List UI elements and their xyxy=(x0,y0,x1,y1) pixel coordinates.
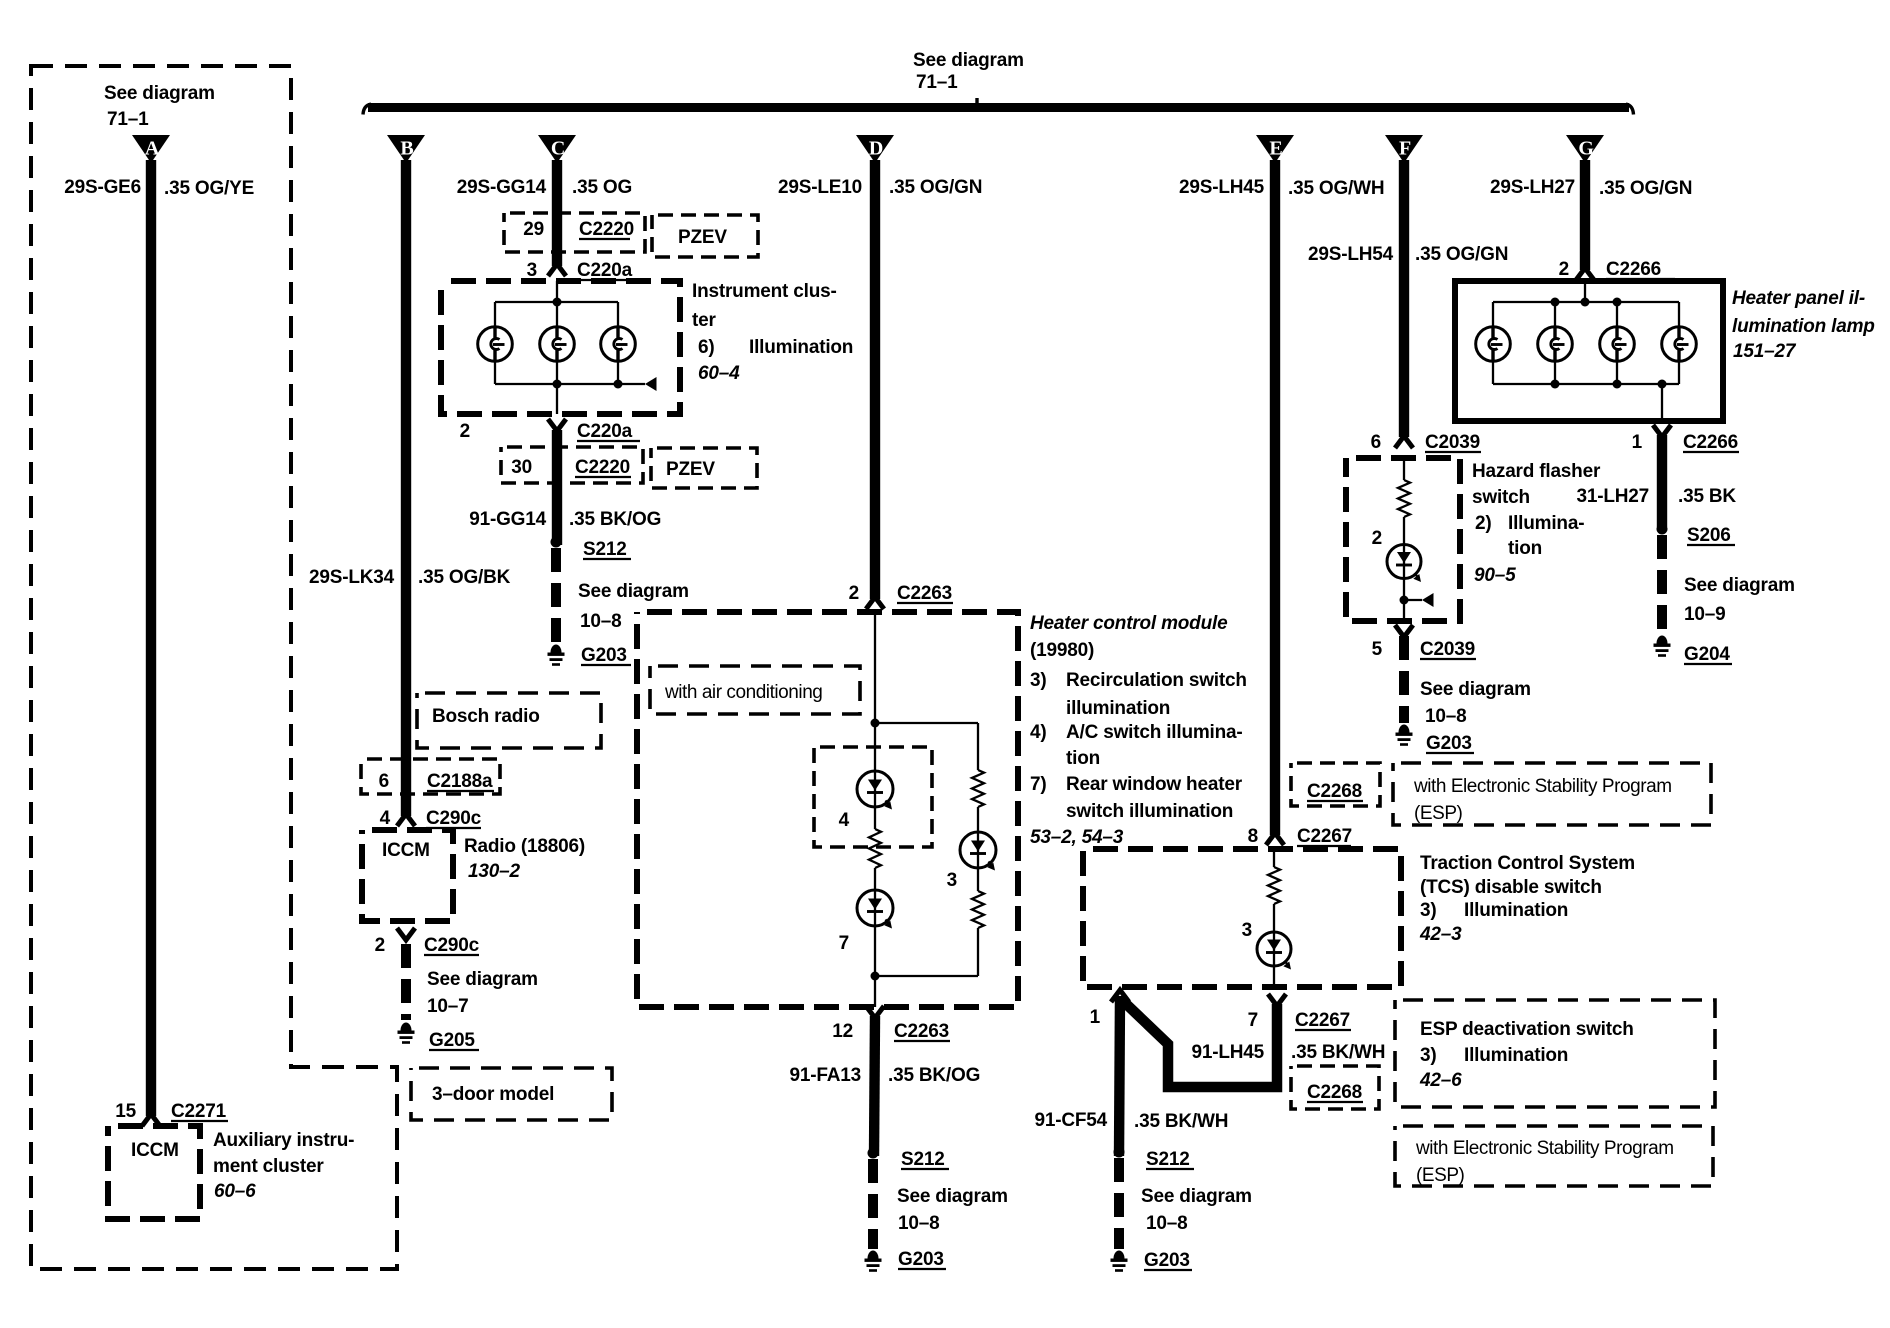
svg-text:See diagram: See diagram xyxy=(913,50,1024,71)
wire 91-GG14 vertical xyxy=(552,430,562,545)
option box: See diagram 71-1 (left region outline) xyxy=(31,66,397,1269)
svg-text:G203: G203 xyxy=(1144,1250,1190,1271)
connector arrow into hazard switch xyxy=(1395,436,1413,448)
svg-text:Hazard flasher: Hazard flasher xyxy=(1472,461,1601,482)
svg-text:130–2: 130–2 xyxy=(468,861,520,882)
svg-text:42–6: 42–6 xyxy=(1419,1070,1462,1091)
svg-text:29S-GE6: 29S-GE6 xyxy=(64,177,141,198)
svg-text:91-FA13: 91-FA13 xyxy=(790,1065,861,1086)
splice S212 (C) xyxy=(551,537,562,548)
svg-text:S206: S206 xyxy=(1687,525,1731,546)
svg-text:10–8: 10–8 xyxy=(580,611,621,632)
junction dot top center xyxy=(553,298,562,307)
svg-text:.35 OG/GN: .35 OG/GN xyxy=(889,177,982,198)
wire 29S-GG14 (C) vertical upper xyxy=(552,160,562,266)
junction dot bottom xyxy=(871,972,880,981)
wire lamp3-resistor2 xyxy=(977,868,979,891)
bus reference tick xyxy=(975,98,978,105)
connector arrow out of TCS pin 7 xyxy=(1268,994,1286,1006)
svg-text:C2188a: C2188a xyxy=(427,771,493,792)
svg-text:10–7: 10–7 xyxy=(427,996,468,1017)
wire to G203 dashed (E) xyxy=(1114,1158,1124,1249)
radio ICCM box xyxy=(362,830,453,921)
wire to G204 dashed (G) xyxy=(1657,535,1667,634)
svg-text:tion: tion xyxy=(1066,748,1100,769)
splice S212 (E) xyxy=(1114,1147,1125,1158)
junction dot hazard xyxy=(1400,596,1409,605)
svg-text:.35 BK: .35 BK xyxy=(1678,486,1736,507)
svg-text:.35 BK/WH: .35 BK/WH xyxy=(1134,1111,1228,1132)
wire 31-LH27 vertical xyxy=(1657,435,1667,527)
svg-text:29S-LK34: 29S-LK34 xyxy=(309,567,395,588)
option box 3-door model xyxy=(411,1068,612,1120)
cluster lamp 2 xyxy=(540,327,575,362)
svg-text:C2266: C2266 xyxy=(1683,432,1738,453)
svg-text:lumination lamp: lumination lamp xyxy=(1732,316,1875,337)
svg-text:2: 2 xyxy=(849,583,859,604)
connector box C2268 (lower) xyxy=(1291,1066,1379,1109)
wire 91-LH45 loop pin7 to pin1 xyxy=(1122,1000,1277,1087)
svg-text:ESP deactivation switch: ESP deactivation switch xyxy=(1420,1019,1634,1040)
svg-text:Rear window heater: Rear window heater xyxy=(1066,774,1243,795)
svg-text:.35 OG/BK: .35 OG/BK xyxy=(418,567,511,588)
in-line connector box pin 29 C2220 xyxy=(504,213,645,252)
resistor hazard xyxy=(1398,480,1410,517)
heater panel ground-side stem xyxy=(1661,384,1663,421)
heater panel lamp 1 xyxy=(1476,327,1511,362)
svg-text:Instrument clus-: Instrument clus- xyxy=(692,281,837,302)
svg-text:3–door model: 3–door model xyxy=(432,1084,554,1105)
svg-text:G205: G205 xyxy=(429,1030,475,1051)
svg-text:.35 OG: .35 OG xyxy=(572,177,632,198)
svg-text:4: 4 xyxy=(380,808,391,829)
wire 29S-LH45/LH54 (F) vertical xyxy=(1399,160,1409,437)
svg-text:G: G xyxy=(1578,138,1594,160)
svg-text:3): 3) xyxy=(1420,1045,1437,1066)
power feed bus wire from diagram 71-1 xyxy=(368,103,1629,112)
svg-text:Illumination: Illumination xyxy=(749,337,853,358)
svg-text:C220a: C220a xyxy=(577,421,633,442)
heater panel lamp 4 xyxy=(1662,327,1697,362)
svg-text:Heater panel il-: Heater panel il- xyxy=(1732,288,1865,309)
svg-text:Illumina-: Illumina- xyxy=(1508,513,1584,534)
heater panel feed stem xyxy=(1584,281,1586,302)
svg-text:(ESP): (ESP) xyxy=(1414,803,1463,824)
lamp 3 (recirculation switch illumination) xyxy=(960,832,996,871)
svg-text:C2268: C2268 xyxy=(1307,1082,1362,1103)
cluster internal feed wire xyxy=(556,281,558,302)
svg-text:C2039: C2039 xyxy=(1420,639,1475,660)
TCS internal wire upper xyxy=(1273,849,1275,867)
connector arrow out of heater panel lamp xyxy=(1653,425,1671,437)
cluster internal top bus xyxy=(495,301,618,303)
off-page connector triangle E xyxy=(1256,135,1294,163)
off-page connector triangle G xyxy=(1566,135,1604,163)
wire 29S-LK34 (B) vertical xyxy=(401,160,411,816)
lamp 7 (rear window heater switch illumination) xyxy=(857,890,893,929)
splice S206 xyxy=(1657,524,1668,535)
cluster lamp 1 xyxy=(478,327,513,362)
svg-text:See diagram: See diagram xyxy=(1420,679,1531,700)
TCS lamp 3 (illumination) xyxy=(1257,932,1291,970)
cluster lamp 2 stem xyxy=(556,302,558,328)
svg-text:4: 4 xyxy=(839,810,850,831)
svg-text:29: 29 xyxy=(523,219,544,240)
svg-text:C2220: C2220 xyxy=(579,219,634,240)
svg-text:15: 15 xyxy=(115,1101,136,1122)
svg-text:C2263: C2263 xyxy=(897,583,952,604)
svg-text:.35 OG/GN: .35 OG/GN xyxy=(1599,178,1692,199)
heater panel lamp 2 stems xyxy=(1554,302,1556,327)
connector arrow into aux cluster xyxy=(142,1114,160,1126)
svg-text:2): 2) xyxy=(1475,513,1492,534)
svg-text:.35 OG/YE: .35 OG/YE xyxy=(164,178,254,199)
svg-text:10–9: 10–9 xyxy=(1684,604,1725,625)
svg-text:.35 OG/WH: .35 OG/WH xyxy=(1288,178,1384,199)
wire 29S-LE10 (D) vertical xyxy=(870,160,880,599)
TCS internal wire lower xyxy=(1273,966,1275,987)
wire to G203 dashed (F) xyxy=(1399,636,1409,723)
hazard flasher switch box xyxy=(1346,458,1460,621)
wire to G203 dashed (C) xyxy=(551,548,561,642)
hazard lamp 2 (illumination) xyxy=(1387,545,1421,583)
option box PZEV (upper) xyxy=(652,215,758,257)
pin 1 arrow into TCS box xyxy=(1111,990,1129,1002)
svg-text:ment cluster: ment cluster xyxy=(213,1156,324,1177)
heater control module box xyxy=(637,612,1018,1007)
cluster internal bottom bus xyxy=(495,383,618,385)
svg-text:C2268: C2268 xyxy=(1307,781,1362,802)
svg-text:C: C xyxy=(551,138,565,160)
connector arrow into TCS switch xyxy=(1266,833,1284,845)
wire resistor-lamp xyxy=(1273,904,1275,932)
svg-text:switch illumination: switch illumination xyxy=(1066,801,1233,822)
cluster lamp 3 xyxy=(601,327,636,362)
wire to G203 dashed (D) xyxy=(868,1159,878,1249)
svg-text:PZEV: PZEV xyxy=(678,227,727,248)
svg-text:See diagram: See diagram xyxy=(427,969,538,990)
connector arrow into instrument cluster xyxy=(548,264,566,276)
svg-text:3): 3) xyxy=(1420,900,1437,921)
svg-text:See diagram: See diagram xyxy=(1684,575,1795,596)
svg-text:6): 6) xyxy=(698,337,715,358)
svg-text:30: 30 xyxy=(511,457,532,478)
svg-text:Traction Control System: Traction Control System xyxy=(1420,853,1635,874)
ground G203 (F) xyxy=(1396,725,1413,746)
svg-text:G203: G203 xyxy=(1426,733,1472,754)
wire lamp7 to bottom junction xyxy=(874,926,876,976)
svg-text:C2039: C2039 xyxy=(1425,432,1480,453)
in-line connector box pin 6 C2188a xyxy=(361,759,500,794)
svg-text:with Electronic Stability Prog: with Electronic Stability Program xyxy=(1415,1138,1674,1159)
wire 91-FA13 vertical xyxy=(874,1016,875,1156)
svg-text:3: 3 xyxy=(947,870,957,891)
svg-text:ter: ter xyxy=(692,310,716,331)
wire resistor-lamp (hazard) xyxy=(1403,517,1405,545)
heater panel lamp 3 xyxy=(1600,327,1635,362)
splice S212 (D) xyxy=(868,1148,879,1159)
svg-text:S212: S212 xyxy=(901,1149,945,1170)
svg-text:151–27: 151–27 xyxy=(1733,341,1797,362)
svg-text:.35 BK/OG: .35 BK/OG xyxy=(569,509,661,530)
aux instrument cluster ICCM box xyxy=(108,1126,200,1219)
junction dot bottom right xyxy=(614,380,623,389)
lamp 4 option dashed box xyxy=(814,747,932,847)
connector arrow into heater control module xyxy=(866,597,884,609)
svg-text:Bosch radio: Bosch radio xyxy=(432,706,540,727)
svg-text:illumination: illumination xyxy=(1066,698,1170,719)
svg-text:C290c: C290c xyxy=(426,808,482,829)
svg-text:2: 2 xyxy=(1372,528,1382,549)
heater panel lamp 4 stems xyxy=(1678,302,1680,327)
svg-text:3: 3 xyxy=(1242,920,1252,941)
off-page connector triangle C xyxy=(538,135,576,163)
svg-text:Illumination: Illumination xyxy=(1464,1045,1568,1066)
svg-text:5: 5 xyxy=(1372,639,1383,660)
svg-text:91-GG14: 91-GG14 xyxy=(469,509,546,530)
junction dot bottom center xyxy=(553,380,562,389)
resistor bottom of lamp 3 branch xyxy=(972,891,984,928)
svg-text:1: 1 xyxy=(1632,432,1643,453)
svg-text:29S-LH27: 29S-LH27 xyxy=(1490,177,1575,198)
TCS disable switch box xyxy=(1083,849,1401,987)
wire to G205 (dashed continuation) xyxy=(401,944,411,1020)
svg-text:See diagram: See diagram xyxy=(104,83,215,104)
svg-text:71–1: 71–1 xyxy=(916,72,958,93)
option box with air conditioning xyxy=(650,666,860,714)
svg-text:(ESP): (ESP) xyxy=(1416,1165,1465,1186)
svg-text:60–4: 60–4 xyxy=(698,363,740,384)
ground G204 xyxy=(1654,636,1671,657)
svg-text:8: 8 xyxy=(1248,826,1258,847)
svg-text:91-LH45: 91-LH45 xyxy=(1191,1042,1264,1063)
hazard internal wire lower xyxy=(1403,579,1405,622)
circuit continues arrow inside hazard switch xyxy=(1404,599,1422,601)
connector arrow out of hazard switch xyxy=(1395,625,1413,637)
lamp 4 (A/C switch illumination) xyxy=(857,771,893,810)
circuit continues arrow inside cluster xyxy=(618,383,645,385)
svg-text:1: 1 xyxy=(1090,1007,1101,1028)
heater panel lamp 2 xyxy=(1538,327,1573,362)
heater panel lamp 3 stems xyxy=(1616,302,1618,327)
svg-text:G204: G204 xyxy=(1684,644,1730,665)
svg-text:C2267: C2267 xyxy=(1295,1010,1350,1031)
svg-text:29S-LH45: 29S-LH45 xyxy=(1179,177,1265,198)
instrument cluster box xyxy=(441,281,680,414)
svg-text:.35 BK/OG: .35 BK/OG xyxy=(888,1065,980,1086)
svg-text:10–8: 10–8 xyxy=(1146,1213,1187,1234)
svg-text:C2220: C2220 xyxy=(575,457,630,478)
wire 91-CF54 vertical xyxy=(1119,996,1120,1156)
svg-text:Radio (18806): Radio (18806) xyxy=(464,836,585,857)
module internal feed wire xyxy=(874,612,876,771)
resistor below lamp 4 xyxy=(869,829,881,868)
junction dot feed split xyxy=(871,719,880,728)
svg-text:E: E xyxy=(1269,138,1282,160)
svg-text:7: 7 xyxy=(1248,1010,1258,1031)
svg-text:2: 2 xyxy=(1559,259,1569,280)
svg-text:2: 2 xyxy=(375,935,385,956)
ground G203 (C) xyxy=(548,645,565,666)
svg-text:A/C switch illumina-: A/C switch illumina- xyxy=(1066,722,1243,743)
wire resistor-lamp3 xyxy=(977,807,979,833)
svg-text:71–1: 71–1 xyxy=(107,109,149,130)
off-page connector triangle A xyxy=(132,135,170,163)
option box PZEV (lower) xyxy=(651,448,757,488)
connector arrow into radio xyxy=(397,814,415,826)
svg-text:D: D xyxy=(869,138,883,160)
svg-text:S212: S212 xyxy=(583,539,627,560)
svg-text:3: 3 xyxy=(527,260,537,281)
svg-text:with air conditioning: with air conditioning xyxy=(664,682,822,703)
resistor top of lamp 3 branch xyxy=(972,770,984,807)
off-page connector triangle D xyxy=(856,135,894,163)
svg-text:G203: G203 xyxy=(898,1249,944,1270)
heater panel lamp 1 stems xyxy=(1492,302,1494,327)
svg-text:C2263: C2263 xyxy=(894,1021,949,1042)
off-page connector triangle F xyxy=(1385,135,1423,163)
wire 29S-LH45 (E) vertical xyxy=(1270,160,1280,835)
heater panel top bus xyxy=(1493,301,1679,303)
svg-text:10–8: 10–8 xyxy=(898,1213,939,1234)
svg-text:C220a: C220a xyxy=(577,260,633,281)
module internal ground-side wire xyxy=(874,976,876,1007)
svg-text:C2271: C2271 xyxy=(171,1101,227,1122)
wire lamp4-resistor-lamp7 xyxy=(874,807,876,829)
ground G205 xyxy=(398,1023,415,1044)
svg-text:C2267: C2267 xyxy=(1297,826,1352,847)
svg-text:B: B xyxy=(400,138,413,160)
connector box C2268 (upper) xyxy=(1291,763,1380,806)
off-page connector triangle B xyxy=(387,135,425,163)
svg-text:4): 4) xyxy=(1030,722,1047,743)
option box with ESP (upper) xyxy=(1393,763,1711,825)
svg-text:Auxiliary instru-: Auxiliary instru- xyxy=(213,1130,354,1151)
option box Bosch radio xyxy=(417,693,601,748)
svg-text:C2266: C2266 xyxy=(1606,259,1661,280)
svg-text:53–2, 54–3: 53–2, 54–3 xyxy=(1030,827,1124,848)
svg-text:C290c: C290c xyxy=(424,935,480,956)
svg-text:ICCM: ICCM xyxy=(382,840,430,861)
svg-text:3): 3) xyxy=(1030,670,1047,691)
cluster lamp 3 stem xyxy=(617,302,619,328)
connector arrow out of radio xyxy=(397,928,415,940)
svg-text:91-CF54: 91-CF54 xyxy=(1034,1110,1107,1131)
svg-text:See diagram: See diagram xyxy=(897,1186,1008,1207)
svg-text:ICCM: ICCM xyxy=(131,1140,179,1161)
svg-text:29S-LH54: 29S-LH54 xyxy=(1308,244,1394,265)
connector arrow into heater panel lamp xyxy=(1576,268,1594,280)
svg-text:7: 7 xyxy=(839,933,849,954)
heater panel bottom bus xyxy=(1493,383,1679,385)
svg-text:G203: G203 xyxy=(581,645,627,666)
heater panel illumination lamp box xyxy=(1455,281,1723,421)
cluster internal ground-side wire xyxy=(556,384,558,414)
ground G203 (E) xyxy=(1111,1251,1128,1272)
ground G203 (D) xyxy=(865,1251,882,1272)
svg-text:6: 6 xyxy=(379,771,389,792)
resistor TCS xyxy=(1268,867,1280,904)
in-line connector box pin 30 C2220 xyxy=(501,447,643,483)
branch wire to lamp 3 chain xyxy=(875,722,978,724)
svg-text:tion: tion xyxy=(1508,538,1542,559)
svg-text:A: A xyxy=(145,138,160,160)
svg-text:Illumination: Illumination xyxy=(1464,900,1568,921)
connector arrow out of instrument cluster xyxy=(548,419,566,431)
cluster lamp 1 stem xyxy=(494,302,496,328)
svg-text:with Electronic Stability Prog: with Electronic Stability Program xyxy=(1413,776,1672,797)
svg-text:60–6: 60–6 xyxy=(214,1181,256,1202)
svg-text:6: 6 xyxy=(1371,432,1381,453)
wire 29S-GE6 (A) vertical xyxy=(146,160,156,1116)
svg-text:Recirculation switch: Recirculation switch xyxy=(1066,670,1247,691)
svg-text:S212: S212 xyxy=(1146,1149,1190,1170)
connector arrow out of module xyxy=(866,1006,884,1018)
svg-text:switch: switch xyxy=(1472,487,1530,508)
svg-text:(TCS) disable switch: (TCS) disable switch xyxy=(1420,877,1602,898)
svg-text:Heater control module: Heater control module xyxy=(1030,613,1228,634)
junction dots heater panel xyxy=(1551,298,1560,307)
svg-text:31-LH27: 31-LH27 xyxy=(1576,486,1649,507)
svg-text:29S-LE10: 29S-LE10 xyxy=(778,177,862,198)
svg-text:29S-GG14: 29S-GG14 xyxy=(457,177,547,198)
svg-text:12: 12 xyxy=(832,1021,853,1042)
svg-text:See diagram: See diagram xyxy=(1141,1186,1252,1207)
hazard internal wire upper xyxy=(1403,458,1405,480)
option box with ESP (lower) xyxy=(1395,1126,1713,1186)
svg-text:90–5: 90–5 xyxy=(1474,565,1516,586)
wire lamp3 branch return xyxy=(977,928,979,976)
svg-text:PZEV: PZEV xyxy=(666,459,715,480)
svg-text:2: 2 xyxy=(460,421,470,442)
svg-text:F: F xyxy=(1399,138,1411,160)
svg-text:10–8: 10–8 xyxy=(1425,706,1466,727)
svg-text:.35 BK/WH: .35 BK/WH xyxy=(1291,1042,1385,1063)
svg-text:(19980): (19980) xyxy=(1030,640,1094,661)
svg-text:7): 7) xyxy=(1030,774,1047,795)
svg-text:.35 OG/GN: .35 OG/GN xyxy=(1415,244,1508,265)
wire 29S-LH27 (G) vertical xyxy=(1580,160,1590,270)
svg-text:42–3: 42–3 xyxy=(1419,924,1462,945)
svg-text:See diagram: See diagram xyxy=(578,581,689,602)
option box ESP deactivation switch xyxy=(1395,1000,1715,1107)
